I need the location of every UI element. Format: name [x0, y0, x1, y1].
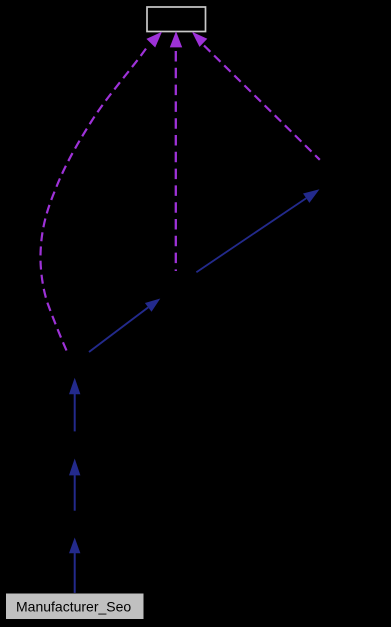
arrowhead of left dashed edge — [146, 32, 162, 48]
arrowhead B2 to B1 — [69, 459, 80, 476]
arrowhead Manufacturer_Seo to B2 — [69, 538, 80, 554]
node A (top class box, empty) — [147, 7, 206, 32]
wire: solid inheritance edge Manufacturer_Seo to node B2 — [74, 553, 76, 593]
wire: dashed usage edge right diagonal (node R to node A) — [204, 46, 320, 160]
wire: solid inheritance edge node M to node R — [196, 198, 306, 272]
wire: solid inheritance edge node L to node M — [89, 307, 148, 352]
node Manufacturer_Seo (current class box) — [6, 594, 144, 620]
wire: dashed usage edge left curve (node L to node A) — [40, 47, 147, 351]
arrowhead of right dashed edge — [192, 32, 207, 47]
arrowhead L to M — [145, 299, 160, 312]
svg-text:Manufacturer_Seo: Manufacturer_Seo — [16, 598, 131, 614]
wire: dashed usage edge middle vertical (node M to node A) — [175, 51, 177, 271]
wire: solid inheritance edge node B2 to node B1 — [74, 475, 76, 511]
wire: solid inheritance edge node B1 to node L — [74, 394, 76, 431]
arrowhead M to R — [303, 189, 320, 203]
arrowhead of middle dashed edge — [170, 31, 182, 47]
arrowhead B1 to L — [69, 378, 80, 395]
